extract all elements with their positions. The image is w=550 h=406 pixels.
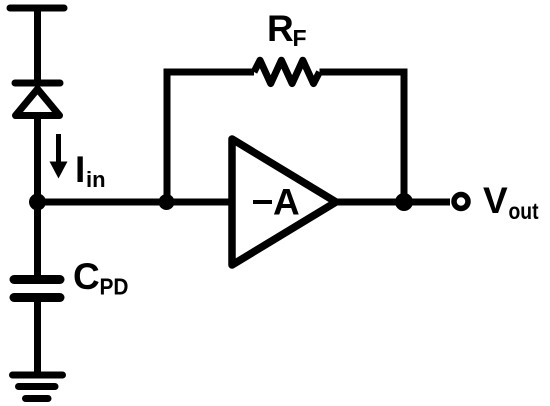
svg-text:out: out	[509, 198, 539, 224]
svg-text:C: C	[73, 256, 100, 297]
svg-text:F: F	[293, 25, 307, 51]
svg-text:PD: PD	[100, 274, 129, 300]
svg-text:V: V	[483, 180, 508, 221]
svg-text:I: I	[75, 149, 85, 190]
svg-text:A: A	[273, 182, 300, 223]
svg-text:in: in	[86, 167, 106, 192]
svg-text:R: R	[267, 8, 294, 49]
